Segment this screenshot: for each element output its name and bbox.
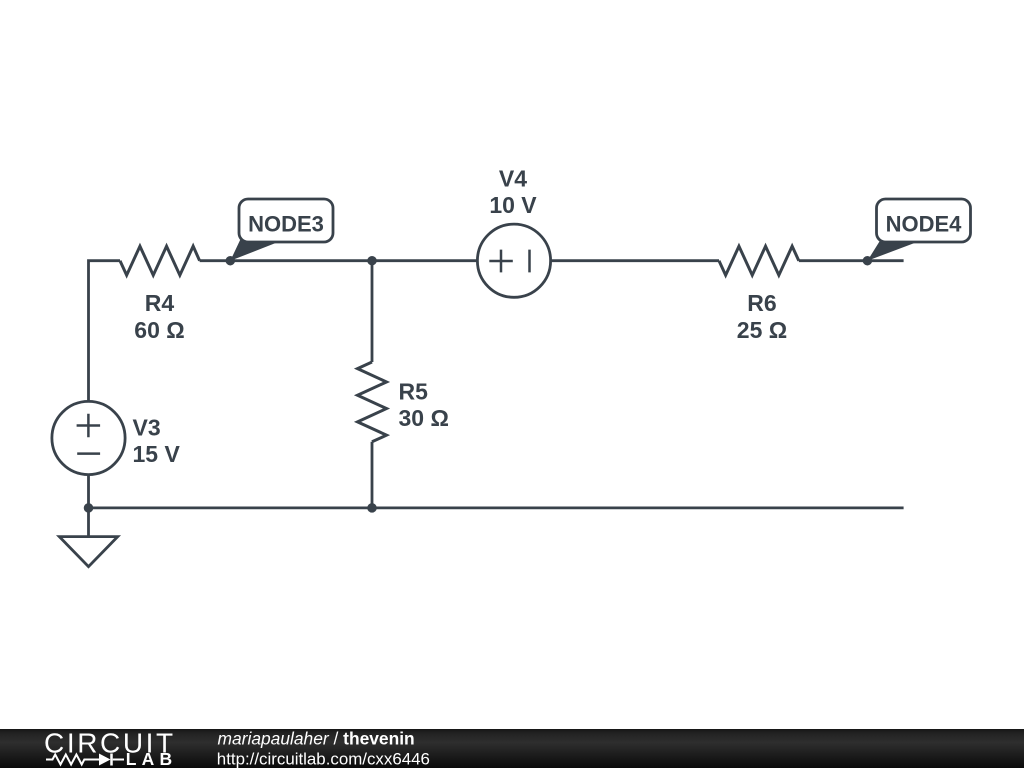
- wire: middle vertical junction to R5 top: [371, 261, 374, 362]
- svg-text:NODE3: NODE3: [248, 211, 324, 236]
- junction dot at NODE3: [226, 256, 236, 266]
- svg-text:15 V: 15 V: [133, 441, 181, 467]
- voltage source V4: [477, 224, 550, 297]
- svg-text:NODE4: NODE4: [886, 211, 963, 236]
- svg-text:LAB: LAB: [126, 749, 178, 768]
- CircuitLab logo resistor+diode symbol: [46, 754, 124, 766]
- junction dot at NODE4: [863, 256, 873, 266]
- resistor R6: [719, 246, 799, 275]
- node NODE3 callout: [230, 199, 333, 261]
- voltage source V3: [52, 401, 125, 474]
- svg-text:R5: R5: [399, 378, 429, 404]
- wire: R5 bottom to bottom rail: [371, 442, 374, 508]
- svg-text:60 Ω: 60 Ω: [134, 317, 184, 343]
- wire: R6 right lead to NODE4 stub end: [799, 259, 904, 262]
- svg-text:25 Ω: 25 Ω: [737, 317, 787, 343]
- junction dot at V3 bottom / ground rail: [84, 503, 94, 513]
- junction dot at R5 top: [367, 256, 377, 266]
- wire: R4 right lead to middle junction to V4 left: [200, 259, 478, 262]
- wire: left vertical from top rail to V3 top: [89, 261, 121, 402]
- resistor R5: [358, 362, 387, 442]
- resistor R4: [120, 246, 200, 275]
- ground: [59, 537, 117, 567]
- wire: bottom ground rail: [89, 506, 904, 509]
- wire: V3 bottom lead to ground: [87, 474, 90, 536]
- junction dot at R5 bottom / ground rail: [367, 503, 377, 513]
- svg-text:http://circuitlab.com/cxx6446: http://circuitlab.com/cxx6446: [217, 750, 430, 768]
- node NODE4 callout: [867, 199, 970, 261]
- svg-text:mariapaulaher / thevenin: mariapaulaher / thevenin: [218, 728, 415, 748]
- svg-text:R4: R4: [145, 290, 175, 316]
- svg-text:30 Ω: 30 Ω: [399, 405, 449, 431]
- svg-text:R6: R6: [747, 290, 776, 316]
- svg-text:V4: V4: [499, 166, 527, 192]
- wire: V4 right to R6 left lead: [551, 259, 719, 262]
- svg-text:10 V: 10 V: [489, 192, 537, 218]
- svg-text:V3: V3: [133, 415, 161, 441]
